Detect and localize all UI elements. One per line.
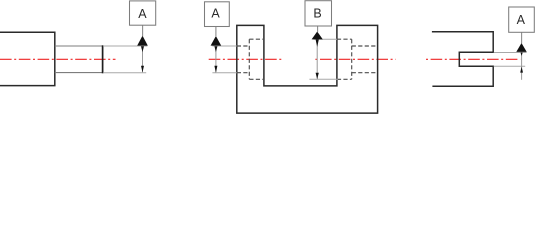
view2 datum B dimension arrowhead bottom bbox=[316, 73, 319, 79]
view2 fork block outline bbox=[237, 25, 378, 113]
view3 dimension arrowhead below bottom extension bbox=[520, 67, 523, 73]
view3 datum A stem bbox=[521, 32, 523, 43]
view1 small shaft bottom edge bbox=[55, 72, 103, 74]
view2 centerline bbox=[209, 58, 282, 60]
view1 datum A frame bbox=[130, 1, 156, 25]
svg-text:A: A bbox=[211, 7, 220, 21]
view1 small shaft top edge bbox=[55, 45, 103, 47]
view1 extension line bottom bbox=[103, 72, 146, 74]
view2 right arm small hole hidden top bbox=[352, 45, 378, 47]
view2 datum A triangle bbox=[211, 36, 222, 46]
view3 extension line top bbox=[494, 52, 527, 54]
view2 datum B frame bbox=[305, 1, 332, 26]
view2 left arm small hole hidden top bbox=[237, 45, 250, 47]
view1 small shaft end face bbox=[102, 45, 104, 73]
view2 datum A extension line top bbox=[212, 45, 236, 47]
view3 small arrow below top extension bbox=[521, 53, 523, 56]
view2 left arm small hole hidden bottom bbox=[237, 72, 250, 74]
view2 left arm counterbore step hidden bbox=[248, 39, 250, 79]
view3 datum A triangle bbox=[516, 43, 526, 52]
view2 datum A stem bbox=[215, 27, 217, 37]
view2 datum B dimension arrowhead top bbox=[316, 40, 319, 47]
view2 datum A dimension line bbox=[215, 46, 217, 72]
view2 left arm large hole hidden bottom bbox=[249, 78, 264, 80]
view2 left arm large hole hidden top bbox=[249, 38, 264, 40]
view2 datum B dimension line bbox=[316, 40, 318, 79]
view3 dimension line bbox=[521, 52, 523, 80]
view2 datum B triangle bbox=[312, 32, 323, 40]
view1 dimension arrowhead at bottom end bbox=[141, 66, 144, 73]
svg-text:A: A bbox=[517, 13, 526, 27]
view2 datum A extension line bottom bbox=[212, 72, 236, 74]
view2 right arm small hole hidden bottom bbox=[352, 72, 378, 74]
view2 right arm large hole hidden bottom bbox=[337, 78, 352, 80]
view1 dimension line bbox=[142, 46, 144, 72]
view2 centerline right segment bbox=[315, 58, 395, 60]
view1 large shaft outline bbox=[0, 32, 55, 85]
view1 extension line top bbox=[103, 45, 147, 47]
view2 right arm large hole hidden top bbox=[337, 38, 352, 40]
view1 dimension arrowhead at top end bbox=[141, 46, 144, 52]
view3 datum A frame bbox=[509, 7, 535, 32]
view1 datum A triangle bbox=[137, 36, 148, 46]
view3 slotted block outline bbox=[432, 32, 493, 86]
svg-text:B: B bbox=[313, 7, 321, 21]
view3 extension line bottom bbox=[494, 65, 525, 67]
view3 centerline bbox=[426, 58, 520, 60]
view2 datum A frame bbox=[205, 2, 230, 27]
view1 centerline bbox=[0, 58, 116, 60]
view2 datum B extension line bottom bbox=[309, 78, 338, 80]
view2 datum A dimension arrowhead top bbox=[214, 46, 217, 52]
view2 datum B extension line top bbox=[314, 38, 338, 40]
view2 right arm counterbore step hidden bbox=[351, 39, 353, 79]
view2 datum A dimension arrowhead bottom bbox=[214, 66, 217, 73]
svg-text:A: A bbox=[138, 7, 147, 21]
view2 datum B stem bbox=[317, 26, 319, 32]
view1 datum A stem bbox=[142, 25, 144, 36]
